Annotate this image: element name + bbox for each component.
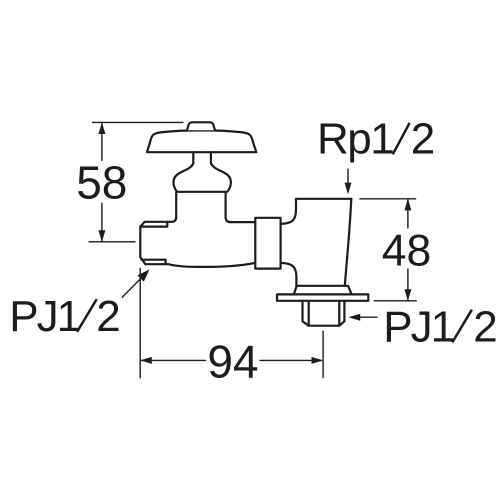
svg-text:2: 2 <box>96 292 120 341</box>
svg-text:PJ1: PJ1 <box>9 292 79 341</box>
dim 58 extension line top <box>92 121 184 123</box>
leader line PJ1/2 right <box>358 316 378 318</box>
arrowhead 94 right <box>312 357 324 364</box>
packing nut bulge <box>173 164 230 192</box>
bonnet <box>172 192 231 222</box>
label PJ1/2 bottom left <box>9 292 120 341</box>
body bottom edge <box>145 263 255 267</box>
svg-text:58: 58 <box>76 156 127 208</box>
wall flange <box>294 286 352 295</box>
outlet neck bottom fillet <box>281 263 297 286</box>
leader line PJ1/2 left <box>122 275 144 298</box>
arrowhead 48 bottom <box>404 289 411 301</box>
outlet neck top fillet <box>281 199 296 224</box>
svg-text:48: 48 <box>382 227 432 276</box>
arrowhead PJ1/2 right leader <box>349 314 361 321</box>
arrowhead 58 bottom <box>98 230 105 242</box>
body top edge left <box>140 222 171 227</box>
bottom male thread PJ1/2 hex <box>303 301 345 326</box>
stem <box>193 152 211 163</box>
dim 48 line <box>407 199 409 301</box>
mounting plate <box>277 294 368 300</box>
arrowhead 94 left <box>140 357 152 364</box>
dim 58 line <box>101 122 103 241</box>
dim 58 extension line bottom (pipe centerline) <box>89 241 136 243</box>
handle cap screw <box>187 122 215 130</box>
coupling nut <box>255 218 280 269</box>
arrowhead Rp1/2 down <box>345 183 352 195</box>
svg-text:Rp1: Rp1 <box>317 114 393 163</box>
arrowhead 48 top <box>404 199 411 211</box>
vertical outlet right edge <box>345 199 352 286</box>
leader line Rp1/2 <box>347 169 349 185</box>
svg-text:PJ1: PJ1 <box>383 303 453 352</box>
svg-text:2: 2 <box>411 114 435 163</box>
svg-text:94: 94 <box>207 335 258 387</box>
dim 48 extension line top <box>359 198 416 200</box>
dim 94 extension line right <box>322 331 324 379</box>
dim 48 extension line bottom <box>374 300 417 302</box>
left male thread PJ1/2 <box>140 222 167 264</box>
handle wheel <box>147 130 256 152</box>
arrowhead 58 top <box>98 122 105 134</box>
dim 94 extension line left <box>139 268 141 379</box>
label PJ1/2 bottom right <box>383 303 497 352</box>
label Rp1/2 <box>317 114 435 163</box>
dim 94 line <box>140 359 322 361</box>
arrowhead PJ1/2 left leader <box>137 270 149 282</box>
vertical outlet top opening <box>296 198 351 200</box>
svg-text:2: 2 <box>473 303 497 352</box>
body top edge right <box>230 221 255 223</box>
